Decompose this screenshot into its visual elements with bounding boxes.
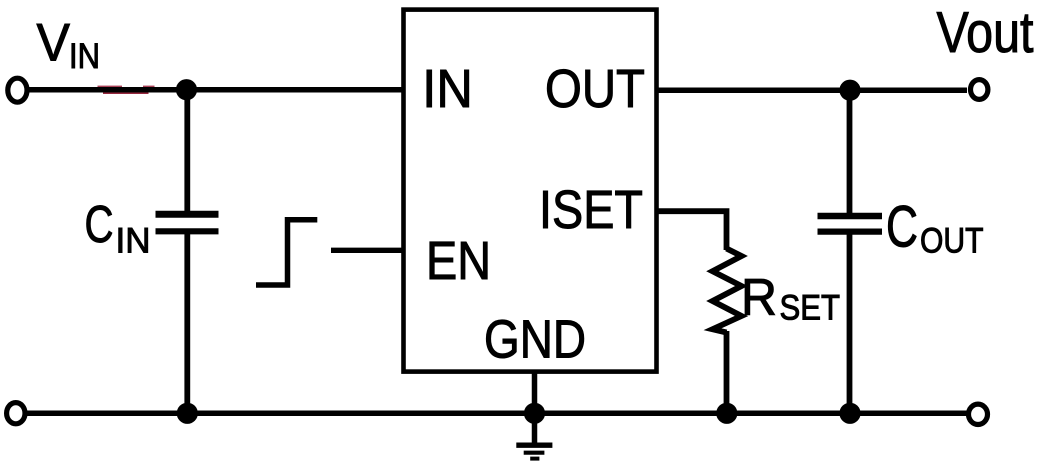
wire top rail right (OUT pin to Vout) [657, 87, 967, 93]
terminal bottom left return [7, 403, 25, 424]
node junction RSET / bottom rail [716, 403, 737, 424]
svg-text:IN: IN [422, 59, 473, 119]
terminal bottom right return [969, 404, 988, 424]
wire RSET lower lead [724, 331, 730, 413]
node junction CIN / bottom rail [177, 403, 198, 424]
svg-text:IN: IN [69, 37, 100, 76]
svg-text:SET: SET [780, 289, 841, 328]
svg-text:EN: EN [426, 231, 491, 291]
terminal VIN input [8, 78, 27, 102]
wire COUT upper lead [847, 90, 853, 214]
wire bottom rail [26, 411, 967, 417]
wire EN pin [331, 248, 403, 253]
node junction OUT / COUT [839, 80, 860, 101]
svg-text:C: C [886, 195, 918, 260]
node junction GND / bottom rail [524, 403, 545, 424]
ground symbol [516, 445, 552, 458]
wire CIN lower lead [184, 233, 190, 414]
wire GND pin stub [532, 372, 538, 444]
wire top rail left (VIN to IN pin) [27, 87, 403, 93]
label COUT [886, 195, 984, 261]
svg-text:C: C [85, 196, 114, 254]
IC U1 body [404, 10, 657, 372]
terminal Vout output [971, 80, 988, 100]
resistor RSET zigzag [713, 249, 742, 333]
svg-text:R: R [741, 269, 777, 327]
svg-text:GND: GND [484, 310, 586, 370]
wire CIN upper lead [184, 90, 190, 213]
svg-text:V: V [37, 14, 71, 73]
wire COUT lower lead [847, 233, 853, 413]
svg-text:IN: IN [116, 222, 151, 261]
svg-text:Vout: Vout [937, 1, 1034, 65]
label CIN [85, 196, 151, 261]
node junction VIN / CIN [176, 79, 197, 100]
label VIN [37, 14, 101, 77]
svg-text:OUT: OUT [545, 59, 645, 119]
wire ISET pin to RSET [657, 211, 727, 250]
red annotation artifact under VIN wire [98, 86, 155, 94]
svg-text:OUT: OUT [920, 222, 984, 261]
node junction COUT / bottom rail [839, 403, 860, 424]
capacitor CIN [156, 214, 219, 231]
enable step waveform symbol [256, 220, 317, 285]
label RSET [741, 269, 840, 328]
svg-text:ISET: ISET [539, 180, 643, 240]
capacitor COUT [818, 216, 883, 232]
